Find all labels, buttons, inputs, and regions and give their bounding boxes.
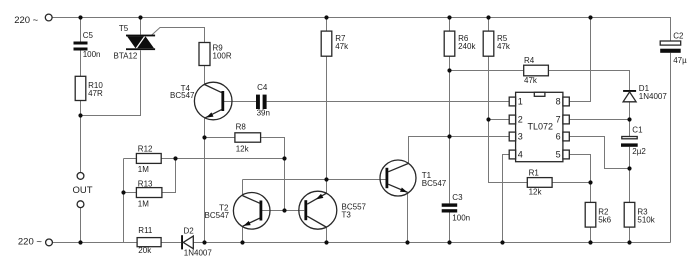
svg-text:1N4007: 1N4007 xyxy=(184,249,213,258)
wire T1 collector to pin 3 xyxy=(409,137,510,164)
svg-text:8: 8 xyxy=(556,97,561,107)
transistor T1 BC547 xyxy=(380,160,447,196)
pin 2 xyxy=(509,115,523,125)
svg-text:5k6: 5k6 xyxy=(598,216,611,225)
wire node T2 collector to T1 base xyxy=(243,179,386,181)
resistor R7 xyxy=(321,31,349,56)
resistor R8 xyxy=(235,122,261,153)
transistor T4 BC547 xyxy=(170,82,232,120)
wire pin 4 to ground rail xyxy=(503,155,510,243)
wire R13 links xyxy=(124,159,176,193)
svg-text:TL072: TL072 xyxy=(528,122,554,132)
pin 5 xyxy=(556,150,570,160)
pin 3 xyxy=(509,132,523,142)
resistor R13 xyxy=(136,180,162,209)
wire R12 node line xyxy=(124,159,285,243)
wire R8 row and drop to base line xyxy=(205,138,285,211)
svg-text:47k: 47k xyxy=(497,42,511,51)
capacitor C2 xyxy=(660,31,687,65)
wire T4 emitter column xyxy=(204,118,206,243)
wire C5/R10 column to OUT xyxy=(80,18,82,243)
svg-text:2: 2 xyxy=(518,115,523,125)
node dots middle xyxy=(78,68,631,212)
svg-text:1N4007: 1N4007 xyxy=(639,92,668,101)
resistor R12 xyxy=(136,144,161,174)
wire bottom supply rail segments xyxy=(53,242,671,244)
svg-text:39n: 39n xyxy=(257,109,270,118)
svg-text:D2: D2 xyxy=(184,226,195,235)
wire node R6 to R4 to D1 xyxy=(450,71,630,91)
svg-text:12k: 12k xyxy=(529,188,543,197)
terminal 220V top xyxy=(45,14,52,21)
svg-text:240k: 240k xyxy=(458,42,476,51)
svg-text:R13: R13 xyxy=(138,180,153,189)
pin 6 xyxy=(556,132,570,142)
capacitor C5 xyxy=(74,31,101,59)
wire pin 7 to D1 node xyxy=(569,119,629,121)
svg-text:C1: C1 xyxy=(632,125,643,134)
svg-text:R4: R4 xyxy=(524,56,535,65)
svg-text:R12: R12 xyxy=(138,144,153,153)
svg-text:47k: 47k xyxy=(524,76,538,85)
diode D1 1N4007 xyxy=(623,84,667,102)
triac T5 BTA12 xyxy=(114,24,156,61)
wire T3 collector lead xyxy=(326,227,328,242)
svg-text:T3: T3 xyxy=(342,210,352,219)
wire T1 emitter lead xyxy=(407,192,409,242)
svg-text:T5: T5 xyxy=(119,24,129,33)
svg-text:220 ~: 220 ~ xyxy=(14,15,38,26)
op-amp U1 TL072 body xyxy=(516,92,563,161)
pin 7 xyxy=(556,115,570,125)
svg-text:C3: C3 xyxy=(452,193,463,202)
diode D2 1N4007 xyxy=(181,226,212,257)
svg-text:OUT: OUT xyxy=(73,185,93,196)
capacitor C1 xyxy=(621,125,646,156)
wire T2 collector and emitter leads xyxy=(242,180,244,243)
resistor R9 xyxy=(199,43,232,66)
svg-text:100n: 100n xyxy=(83,50,101,59)
pin 1 xyxy=(509,97,523,107)
svg-text:220 ~: 220 ~ xyxy=(18,237,42,248)
wire D1-C1-R3 column xyxy=(629,102,631,243)
svg-text:510k: 510k xyxy=(637,216,655,225)
terminal OUT upper xyxy=(77,173,84,180)
svg-text:7: 7 xyxy=(556,115,561,125)
terminal 220V bottom xyxy=(46,239,53,246)
svg-text:3: 3 xyxy=(518,132,523,142)
resistor R2 xyxy=(585,202,611,227)
capacitor C3 xyxy=(442,193,470,222)
wire top supply rail with drop to C2 xyxy=(52,18,670,243)
pin 8 xyxy=(556,97,570,107)
svg-text:20k: 20k xyxy=(138,246,152,255)
svg-text:R1: R1 xyxy=(529,168,540,177)
wire pin 6 to C1 bottom node xyxy=(569,137,629,169)
pin 4 xyxy=(509,150,523,160)
wire R7 column to T3 emitter xyxy=(326,18,328,194)
capacitor C4 xyxy=(256,83,270,117)
transistor T2 BC547 xyxy=(205,193,270,230)
resistor R10 xyxy=(75,76,103,100)
svg-text:100n: 100n xyxy=(452,214,470,223)
svg-text:C2: C2 xyxy=(673,31,684,40)
svg-text:2µ2: 2µ2 xyxy=(632,147,646,156)
transistor T3 BC557 xyxy=(299,191,367,229)
svg-text:47k: 47k xyxy=(335,42,349,51)
node dots top rail xyxy=(78,15,592,19)
wire pin 5 to R1-R2 node xyxy=(569,155,590,183)
svg-text:100R: 100R xyxy=(213,52,232,61)
svg-text:BC547: BC547 xyxy=(422,179,447,188)
svg-text:12k: 12k xyxy=(236,145,250,154)
svg-text:1: 1 xyxy=(518,97,523,107)
resistor R5 xyxy=(483,31,511,56)
wire R1 right and R2 leads xyxy=(552,183,590,243)
wire triac gate to R9 xyxy=(152,28,205,85)
terminal OUT lower xyxy=(77,201,84,208)
node dots bottom rail xyxy=(78,240,631,244)
svg-text:4: 4 xyxy=(518,150,523,160)
svg-text:1M: 1M xyxy=(138,199,149,208)
svg-text:R8: R8 xyxy=(236,122,247,131)
svg-text:47R: 47R xyxy=(88,89,103,98)
wire R6 column through C3 xyxy=(449,18,451,243)
svg-text:5: 5 xyxy=(556,150,561,160)
wire pin 8 to top rail xyxy=(569,18,590,102)
svg-text:BC547: BC547 xyxy=(205,211,230,220)
resistor R11 xyxy=(137,226,161,255)
resistor R4 xyxy=(524,56,549,85)
svg-text:1M: 1M xyxy=(138,165,149,174)
svg-text:47µ: 47µ xyxy=(673,56,687,65)
svg-text:BC547: BC547 xyxy=(170,91,195,100)
wire T2-T3 base line xyxy=(262,210,304,212)
wire T4 base to C4 and C4 to pin 1 xyxy=(224,101,509,103)
wire node OUT to triac MT2 xyxy=(81,18,141,116)
resistor R3 xyxy=(624,202,656,227)
svg-text:R11: R11 xyxy=(138,226,153,235)
svg-text:BTA12: BTA12 xyxy=(114,52,138,61)
wire R5 column to R1 xyxy=(489,18,528,183)
svg-text:C5: C5 xyxy=(83,31,94,40)
wire pin 2 xyxy=(489,119,510,121)
svg-text:6: 6 xyxy=(556,132,561,142)
resistor R1 xyxy=(527,168,552,196)
svg-text:C4: C4 xyxy=(257,83,268,92)
resistor R6 xyxy=(444,31,476,56)
